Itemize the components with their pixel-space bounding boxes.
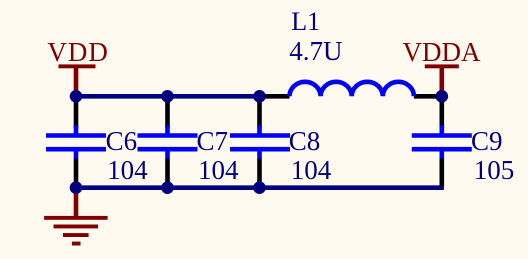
inductor L1 [260,82,442,97]
svg-text:VDD: VDD [47,37,109,67]
junction dot VDDA [436,90,449,103]
svg-text:104: 104 [107,155,148,185]
svg-text:C6: C6 [106,126,138,156]
junction dot bottom C7 [161,181,174,194]
svg-text:104: 104 [291,155,332,185]
capacitor C8 [230,96,290,187]
capacitor C7 [138,96,198,187]
power symbol VDD [59,64,96,94]
capacitor C9 [412,96,472,186]
junction dot top C7 [161,90,174,103]
wire top rail VDD [76,94,260,99]
svg-text:105: 105 [474,155,515,185]
wire VDDA vertical stub [439,96,444,100]
svg-text:C7: C7 [197,126,229,156]
svg-text:L1: L1 [291,7,320,36]
junction dot bottom C6 [70,181,83,194]
capacitor C6 [46,96,106,187]
svg-text:C9: C9 [471,126,503,156]
svg-text:104: 104 [198,155,239,185]
wire bottom rail GND [76,185,444,190]
svg-text:C8: C8 [289,126,321,156]
svg-text:VDDA: VDDA [403,37,481,67]
svg-text:4.7U: 4.7U [289,36,342,66]
ground [44,188,108,246]
power symbol VDDA [425,64,459,94]
junction dot top C8 [253,90,266,103]
junction dot bottom C8 [253,181,266,194]
junction dot top C6 [70,90,83,103]
